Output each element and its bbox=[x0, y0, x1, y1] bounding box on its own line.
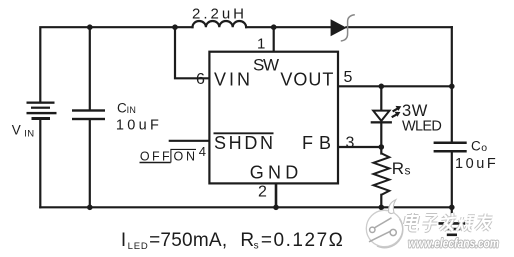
wire Cin branch lower bbox=[89, 120, 91, 207]
svg-text:C: C bbox=[117, 100, 127, 115]
svg-text:I: I bbox=[121, 230, 126, 251]
svg-text:10uF: 10uF bbox=[116, 118, 159, 134]
ground symbol bbox=[439, 223, 466, 234]
diode D1 (Schottky) bbox=[331, 15, 355, 41]
wire top rail left (battery to inductor) bbox=[40, 27, 192, 102]
wire SHDN pin 4 bbox=[170, 140, 210, 142]
svg-text:=0.127Ω: =0.127Ω bbox=[261, 230, 343, 251]
watermark text chinese (shao) bbox=[457, 216, 475, 231]
svg-text:6: 6 bbox=[196, 71, 205, 88]
battery V_IN bbox=[27, 102, 57, 121]
junction node bottom rail / Rs bbox=[379, 205, 385, 211]
svg-text:5: 5 bbox=[344, 69, 353, 86]
junction node VOUT / LED bbox=[379, 84, 385, 90]
IC U1 box bbox=[209, 52, 338, 184]
svg-text:www.elecfans.com: www.elecfans.com bbox=[408, 236, 499, 250]
svg-text:3: 3 bbox=[346, 135, 355, 152]
svg-text:1: 1 bbox=[257, 36, 265, 53]
watermark text chinese (dian) bbox=[404, 213, 421, 231]
junction node bottom rail / right rail bbox=[449, 205, 455, 211]
junction node bottom rail / GND bbox=[273, 205, 279, 211]
inductor L 2.2uH bbox=[193, 21, 247, 27]
junction node VOUT / right rail bbox=[449, 84, 455, 90]
wire top rail right (diode to right rail) bbox=[346, 26, 451, 28]
svg-text:SHDN: SHDN bbox=[214, 133, 273, 153]
wire SW pin 1 bbox=[273, 27, 275, 52]
wire right rail mid (to Co) bbox=[451, 86, 453, 142]
watermark logo circle bbox=[366, 200, 403, 248]
wire LED cathode to FB node bbox=[380, 122, 382, 147]
svg-text:4: 4 bbox=[199, 144, 206, 159]
svg-text:LED: LED bbox=[128, 241, 148, 252]
LED D2 (WLED) bbox=[371, 106, 402, 124]
watermark text chinese (you) bbox=[475, 214, 493, 231]
wire VIN pin 6 bbox=[175, 27, 209, 78]
LED arrow 2 bbox=[392, 114, 397, 117]
svg-text:R: R bbox=[240, 230, 254, 251]
wire LED anode branch bbox=[380, 86, 382, 110]
wire right rail lower (Co to bottom rail) bbox=[451, 152, 453, 207]
svg-text:s: s bbox=[254, 241, 259, 252]
wire left rail lower (battery to bottom rail) bbox=[39, 120, 41, 208]
junction node bottom rail / Cin bbox=[87, 205, 93, 211]
wire FB pin 3 bbox=[338, 146, 381, 148]
wire GND pin 2 bbox=[275, 183, 278, 207]
wire Rs lower stub bbox=[380, 195, 382, 208]
svg-text:SW: SW bbox=[253, 56, 279, 75]
junction node FB / LED cathode bbox=[379, 144, 385, 150]
svg-text:o: o bbox=[481, 142, 487, 154]
svg-text:2.2uH: 2.2uH bbox=[192, 6, 244, 23]
svg-text:2: 2 bbox=[258, 184, 267, 201]
junction node top rail / VIN bbox=[172, 24, 178, 30]
wire VOUT pin 5 bbox=[338, 85, 452, 87]
wire right rail upper bbox=[451, 27, 453, 86]
svg-text:IN: IN bbox=[24, 129, 34, 140]
wire bottom rail bbox=[40, 206, 452, 208]
svg-text:WLED: WLED bbox=[402, 118, 442, 134]
svg-text:IN: IN bbox=[127, 105, 137, 115]
svg-text:ON: ON bbox=[174, 149, 196, 163]
svg-text:=750mA,: =750mA, bbox=[149, 230, 227, 251]
svg-text:OFF: OFF bbox=[140, 149, 170, 163]
resistor Rs zigzag bbox=[374, 153, 390, 195]
capacitor Cin plates bbox=[72, 109, 105, 120]
svg-text:GND: GND bbox=[250, 163, 298, 183]
svg-text:VOUT: VOUT bbox=[280, 69, 333, 89]
wire Rs upper stub bbox=[380, 147, 382, 154]
junction node top rail / Cin bbox=[87, 24, 93, 30]
svg-text:VIN: VIN bbox=[214, 69, 250, 89]
svg-text:s: s bbox=[405, 164, 411, 178]
watermark text chinese (fa) bbox=[439, 213, 457, 231]
svg-text:V: V bbox=[12, 122, 21, 137]
svg-text:R: R bbox=[392, 159, 404, 178]
ground stub bbox=[451, 207, 453, 222]
watermark text chinese (zi) bbox=[421, 215, 439, 231]
LED arrow 1 bbox=[393, 109, 398, 112]
capacitor Co plates bbox=[434, 142, 467, 153]
svg-text:C: C bbox=[471, 139, 481, 154]
formula I_LED=750mA, Rs=0.127 ohm bbox=[121, 230, 343, 252]
wire top rail middle (inductor to diode) bbox=[246, 26, 331, 28]
junction node SW bbox=[271, 24, 277, 30]
wire Cin branch upper bbox=[89, 27, 91, 109]
svg-text:3W: 3W bbox=[402, 102, 428, 120]
svg-text:10uF: 10uF bbox=[455, 156, 496, 172]
